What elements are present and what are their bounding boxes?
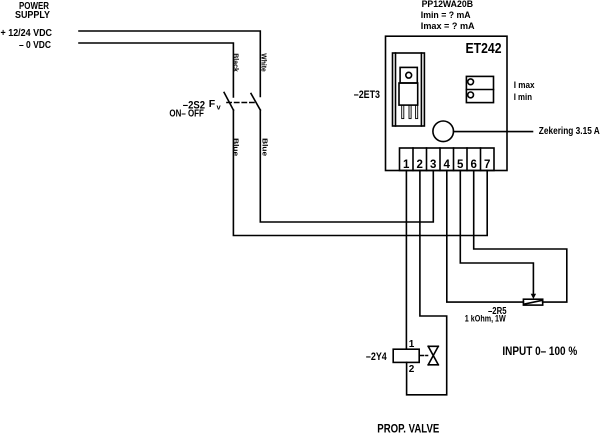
svg-text:Zekering 3.15 A: Zekering 3.15 A (539, 126, 600, 137)
svg-text:–2Y4: –2Y4 (366, 351, 388, 363)
svg-text:Blue: Blue (232, 138, 239, 156)
svg-text:v: v (217, 103, 222, 112)
svg-text:1: 1 (403, 159, 410, 171)
svg-text:I min: I min (514, 92, 532, 102)
svg-text:Black: Black (232, 53, 239, 72)
svg-text:1: 1 (409, 339, 415, 350)
svg-text:2: 2 (409, 364, 415, 375)
svg-text:White: White (260, 53, 267, 72)
svg-text:6: 6 (470, 159, 476, 171)
svg-text:–2ET3: –2ET3 (354, 89, 380, 101)
svg-text:F: F (209, 98, 216, 110)
svg-text:– 0 VDC: – 0 VDC (19, 39, 51, 51)
svg-text:Imin = ? mA: Imin = ? mA (421, 10, 471, 20)
svg-text:PP12WA20B: PP12WA20B (422, 0, 474, 9)
svg-text:7: 7 (484, 159, 490, 171)
svg-text:5: 5 (457, 159, 464, 171)
svg-text:4: 4 (443, 159, 450, 171)
svg-text:INPUT 0– 100 %: INPUT 0– 100 % (502, 344, 577, 358)
svg-text:3: 3 (430, 159, 436, 171)
svg-text:1 kOhm, 1W: 1 kOhm, 1W (465, 313, 506, 323)
svg-text:I max: I max (514, 80, 535, 90)
svg-text:Imax = ? mA: Imax = ? mA (421, 21, 475, 31)
svg-text:PROP. VALVE: PROP. VALVE (377, 424, 439, 434)
svg-text:Blue: Blue (261, 138, 268, 156)
svg-text:+ 12/24 VDC: + 12/24 VDC (1, 27, 53, 39)
svg-text:SUPPLY: SUPPLY (15, 10, 50, 21)
svg-text:ET242: ET242 (466, 40, 502, 57)
svg-text:ON– OFF: ON– OFF (169, 109, 204, 120)
svg-text:2: 2 (416, 159, 422, 171)
